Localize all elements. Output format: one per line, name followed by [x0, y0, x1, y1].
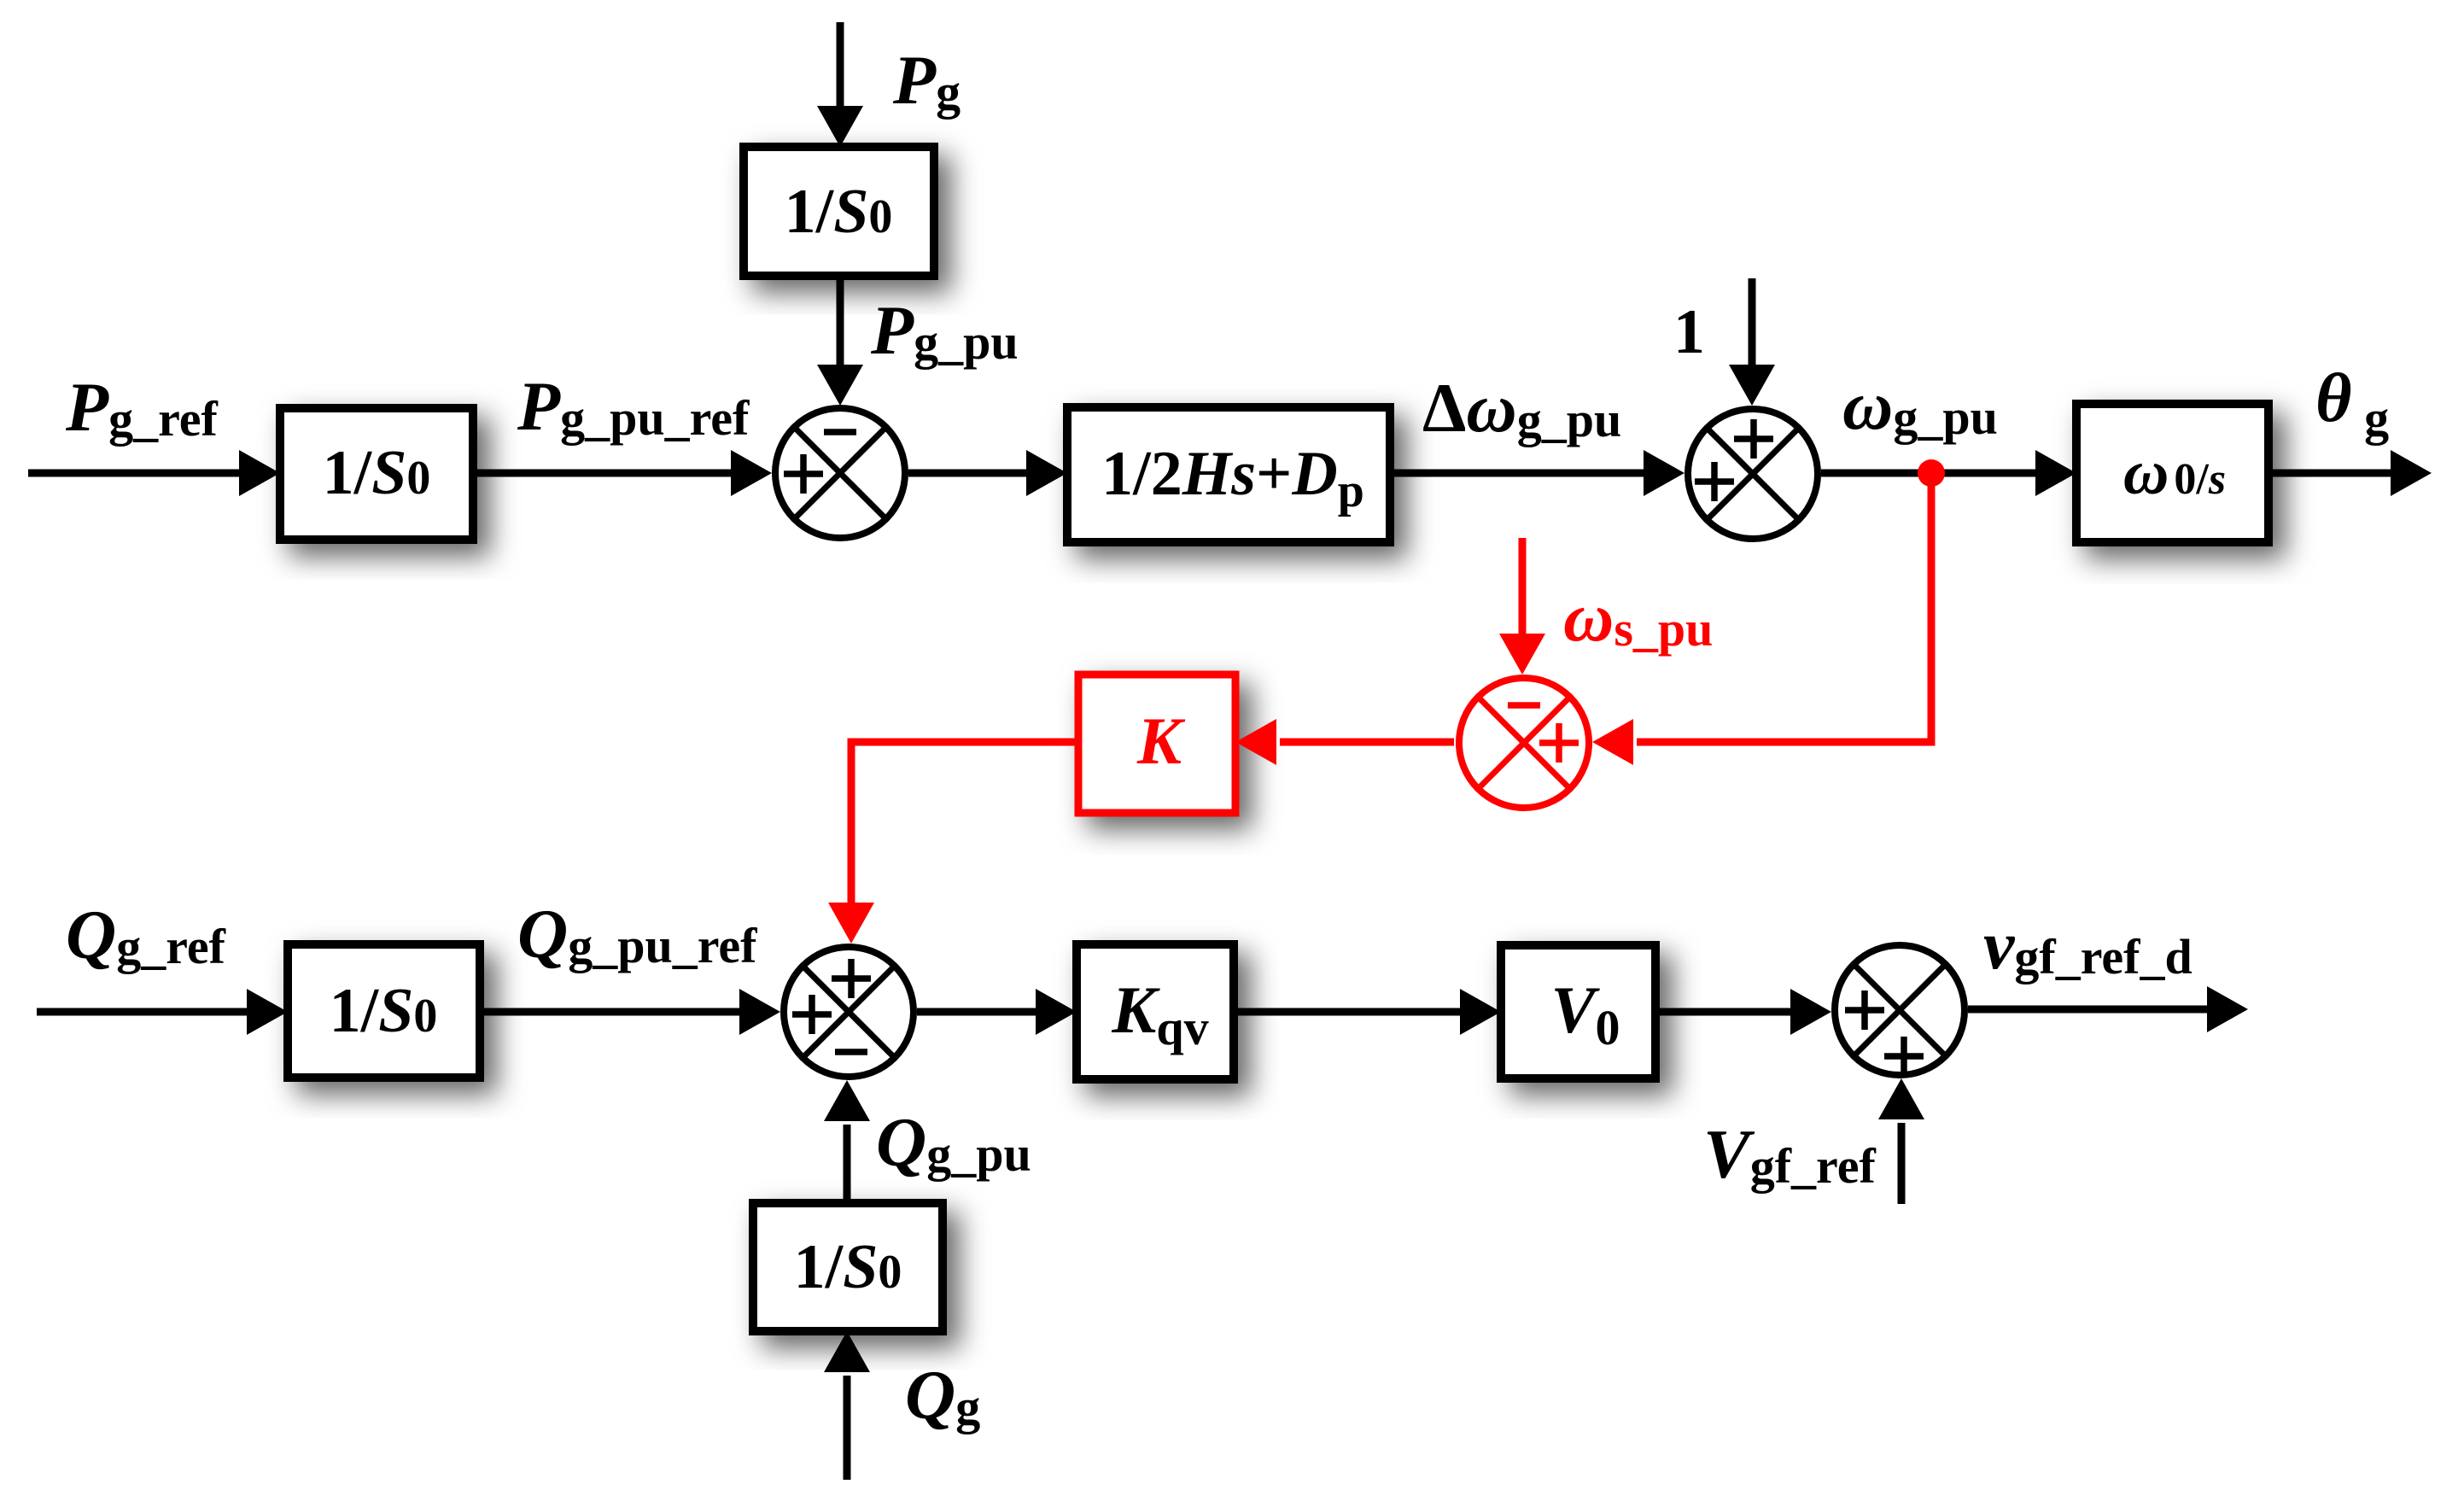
svg-text:1: 1: [1673, 297, 1705, 367]
svg-text:K: K: [1136, 704, 1186, 778]
svg-text:1/2Hs+Dp: 1/2Hs+Dp: [1101, 439, 1364, 517]
